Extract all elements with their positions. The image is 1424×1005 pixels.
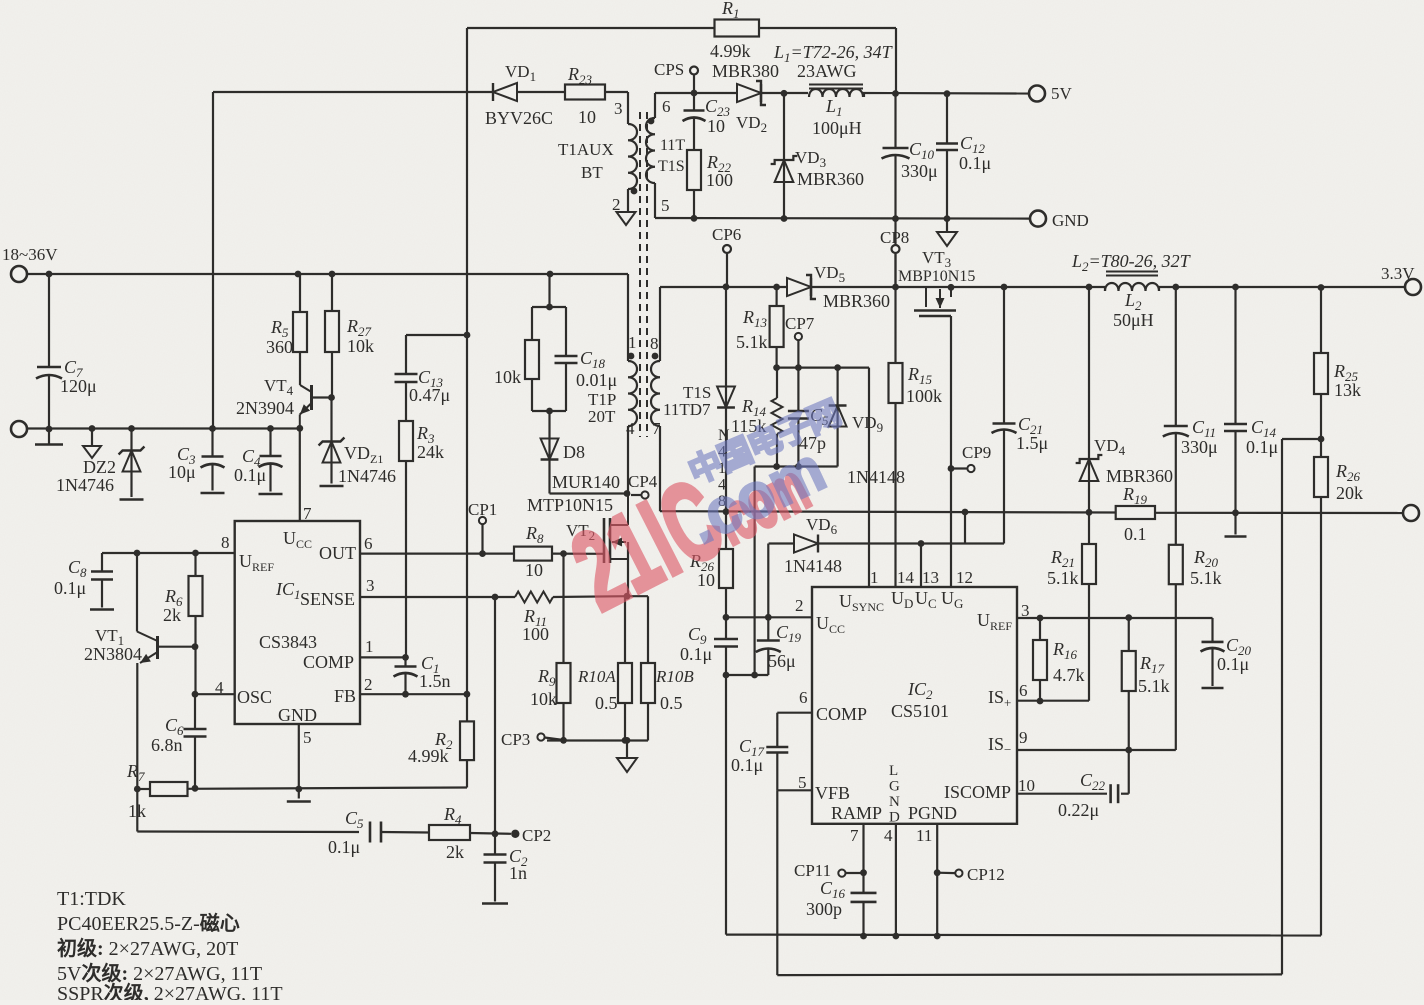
svg-text:24k: 24k (417, 442, 444, 462)
svg-text:100k: 100k (906, 386, 942, 406)
svg-text:CP2: CP2 (522, 826, 551, 845)
svg-text:1N4746: 1N4746 (338, 466, 396, 486)
svg-text:11: 11 (916, 826, 932, 845)
svg-text:0.22μ: 0.22μ (1058, 800, 1099, 820)
svg-text:FB: FB (334, 686, 356, 706)
svg-text:0.47μ: 0.47μ (409, 385, 450, 405)
svg-text:6.8n: 6.8n (151, 735, 183, 755)
svg-text:4: 4 (626, 419, 635, 438)
svg-text:1.5n: 1.5n (419, 671, 451, 691)
svg-text:1: 1 (628, 333, 637, 352)
svg-text:R10A: R10A (577, 667, 616, 686)
svg-text:11TD7: 11TD7 (663, 400, 711, 419)
svg-text:RAMP: RAMP (831, 803, 882, 823)
svg-text:330μ: 330μ (901, 161, 938, 181)
svg-text:SSPR次级, 2×27AWG, 11T: SSPR次级, 2×27AWG, 11T (57, 981, 283, 1000)
svg-text:13: 13 (922, 568, 939, 587)
svg-text:10: 10 (525, 560, 543, 580)
svg-text:5V次级: 2×27AWG, 11T: 5V次级: 2×27AWG, 11T (57, 961, 262, 985)
svg-text:CPS: CPS (654, 60, 684, 79)
svg-text:MBR360: MBR360 (797, 169, 864, 189)
svg-text:20k: 20k (1336, 483, 1363, 503)
svg-text:BT: BT (581, 163, 603, 182)
svg-text:1n: 1n (509, 863, 527, 883)
svg-text:3: 3 (614, 99, 623, 118)
svg-text:PC40EER25.5-Z-磁心: PC40EER25.5-Z-磁心 (57, 911, 240, 935)
svg-text:10μ: 10μ (168, 462, 196, 482)
svg-text:10k: 10k (530, 689, 557, 709)
svg-text:7: 7 (652, 419, 661, 438)
svg-text:4: 4 (884, 826, 893, 845)
svg-text:14: 14 (897, 568, 915, 587)
svg-text:100: 100 (522, 624, 549, 644)
svg-text:0.1μ: 0.1μ (731, 755, 763, 775)
svg-text:10: 10 (578, 107, 596, 127)
svg-text:D8: D8 (563, 442, 585, 462)
svg-text:5.1k: 5.1k (1047, 568, 1079, 588)
svg-text:20T: 20T (588, 407, 616, 426)
svg-text:PGND: PGND (908, 803, 957, 823)
svg-text:300p: 300p (806, 899, 842, 919)
svg-text:OUT: OUT (319, 543, 356, 563)
svg-text:L: L (889, 763, 898, 779)
svg-text:120μ: 120μ (60, 376, 97, 396)
svg-text:2: 2 (795, 596, 804, 615)
svg-text:CP8: CP8 (880, 228, 909, 247)
svg-text:MBR360: MBR360 (823, 291, 890, 311)
svg-text:0.1μ: 0.1μ (680, 644, 712, 664)
svg-text:COMP: COMP (816, 704, 867, 724)
svg-text:5.1k: 5.1k (1138, 676, 1170, 696)
svg-text:2N3904: 2N3904 (236, 398, 294, 418)
svg-text:3: 3 (366, 576, 375, 595)
svg-text:0.1μ: 0.1μ (959, 153, 991, 173)
svg-text:2: 2 (364, 675, 373, 694)
svg-text:3: 3 (1021, 601, 1030, 620)
svg-text:2k: 2k (446, 842, 464, 862)
svg-text:MUR140: MUR140 (552, 472, 620, 492)
svg-text:13k: 13k (1334, 380, 1361, 400)
svg-text:100: 100 (706, 170, 733, 190)
svg-text:GND: GND (1052, 211, 1089, 230)
svg-text:初级: 2×27AWG, 20T: 初级: 2×27AWG, 20T (57, 936, 238, 960)
svg-text:10k: 10k (347, 336, 374, 356)
svg-text:BYV26C: BYV26C (485, 108, 553, 128)
svg-text:2k: 2k (163, 605, 181, 625)
svg-text:CS5101: CS5101 (891, 701, 949, 721)
svg-text:18~36V: 18~36V (2, 245, 58, 264)
svg-text:12: 12 (956, 568, 973, 587)
svg-text:G: G (889, 779, 900, 795)
svg-text:DZ2: DZ2 (83, 457, 116, 477)
svg-text:2N3804: 2N3804 (84, 644, 142, 664)
svg-text:CP7: CP7 (785, 314, 815, 333)
svg-text:1N4148: 1N4148 (784, 556, 842, 576)
svg-text:1: 1 (365, 637, 374, 656)
svg-text:CP3: CP3 (501, 730, 530, 749)
svg-text:0.1μ: 0.1μ (328, 837, 360, 857)
svg-text:8: 8 (221, 533, 230, 552)
svg-text:N: N (889, 794, 900, 810)
svg-text:7: 7 (850, 826, 859, 845)
svg-text:COMP: COMP (303, 652, 354, 672)
svg-text:6: 6 (1019, 681, 1028, 700)
svg-text:0.01μ: 0.01μ (576, 370, 617, 390)
svg-text:23AWG: 23AWG (797, 61, 857, 81)
svg-text:5: 5 (798, 773, 807, 792)
svg-text:4.99k: 4.99k (408, 746, 449, 766)
svg-text:T1AUX: T1AUX (558, 140, 614, 159)
svg-text:1N4746: 1N4746 (56, 475, 114, 495)
svg-text:MBP10N15: MBP10N15 (898, 268, 975, 285)
svg-text:4: 4 (215, 678, 224, 697)
svg-text:10k: 10k (494, 367, 521, 387)
svg-text:330μ: 330μ (1181, 437, 1218, 457)
svg-text:56μ: 56μ (768, 651, 796, 671)
svg-text:6: 6 (799, 688, 808, 707)
svg-text:MBR360: MBR360 (1106, 466, 1173, 486)
svg-text:1N4148: 1N4148 (847, 467, 905, 487)
svg-text:1.5μ: 1.5μ (1016, 433, 1048, 453)
svg-text:1k: 1k (128, 801, 146, 821)
svg-text:11T: 11T (660, 137, 685, 154)
svg-text:100μH: 100μH (812, 118, 862, 138)
svg-text:OSC: OSC (237, 687, 272, 707)
svg-text:5: 5 (661, 196, 670, 215)
svg-text:5.1k: 5.1k (1190, 568, 1222, 588)
svg-text:10: 10 (1018, 776, 1035, 795)
svg-text:0.1: 0.1 (1124, 524, 1147, 544)
svg-text:4.7k: 4.7k (1053, 665, 1085, 685)
svg-text:CP9: CP9 (962, 443, 991, 462)
svg-text:7: 7 (303, 504, 312, 523)
svg-text:ISCOMP: ISCOMP (944, 782, 1011, 802)
svg-text:6: 6 (662, 97, 671, 116)
svg-text:5.1k: 5.1k (736, 332, 768, 352)
svg-text:CP12: CP12 (967, 865, 1005, 884)
svg-text:9: 9 (1019, 728, 1028, 747)
svg-text:3.3V: 3.3V (1381, 264, 1415, 283)
svg-text:0.1μ: 0.1μ (1217, 654, 1249, 674)
svg-text:CP1: CP1 (468, 500, 497, 519)
svg-text:0.5: 0.5 (660, 693, 683, 713)
svg-text:GND: GND (278, 705, 317, 725)
svg-text:SENSE: SENSE (300, 589, 355, 609)
svg-text:5V: 5V (1051, 84, 1073, 103)
svg-text:0.5: 0.5 (595, 693, 618, 713)
svg-text:2: 2 (612, 195, 621, 214)
svg-text:CP6: CP6 (712, 225, 741, 244)
svg-text:0.1μ: 0.1μ (54, 578, 86, 598)
svg-text:VFB: VFB (815, 783, 850, 803)
svg-text:0.1μ: 0.1μ (1246, 437, 1278, 457)
svg-text:50μH: 50μH (1113, 310, 1154, 330)
svg-text:CS3843: CS3843 (259, 632, 317, 652)
svg-text:6: 6 (364, 534, 373, 553)
svg-text:D: D (889, 810, 900, 826)
svg-text:5: 5 (303, 728, 312, 747)
svg-text:T1S: T1S (658, 158, 685, 175)
svg-text:T1:TDK: T1:TDK (57, 888, 126, 910)
svg-text:8: 8 (650, 334, 659, 353)
svg-text:1: 1 (870, 568, 879, 587)
svg-text:0.1μ: 0.1μ (234, 465, 266, 485)
svg-text:R10B: R10B (655, 667, 694, 686)
svg-text:MBR380: MBR380 (712, 61, 779, 81)
svg-text:L2=T80-26, 32T: L2=T80-26, 32T (1071, 251, 1192, 274)
svg-text:360: 360 (266, 337, 293, 357)
svg-text:4.99k: 4.99k (710, 41, 751, 61)
svg-text:10: 10 (707, 116, 725, 136)
